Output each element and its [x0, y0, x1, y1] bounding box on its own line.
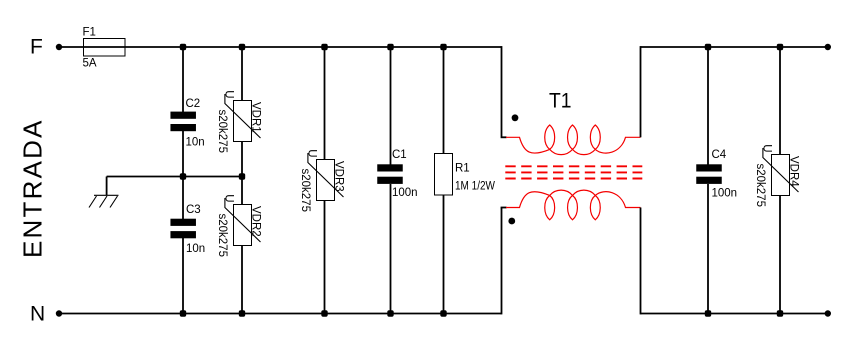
svg-text:U: U — [761, 144, 773, 152]
fuse F1 — [84, 39, 126, 57]
varistor VDR4 diagonal with tail — [763, 148, 799, 192]
wire stub to T1 pin 1 — [501, 136, 507, 138]
wire top to VDR1 — [241, 47, 243, 101]
wire top to C1 — [390, 47, 392, 165]
T1 primary winding (top coil) — [506, 137, 641, 154]
wire R1 to bottom — [443, 195, 445, 314]
svg-text:s20k275: s20k275 — [216, 110, 228, 153]
wire C3 to bottom — [182, 237, 184, 314]
capacitor C1 — [377, 164, 403, 171]
svg-text:s20k275: s20k275 — [299, 169, 311, 212]
wire bottom rail right section — [641, 313, 829, 315]
junction bottom VDR2 branch — [239, 310, 245, 316]
T1 polarity dot top — [512, 114, 519, 121]
svg-text:C1: C1 — [392, 149, 407, 161]
varistor VDR2 diagonal with tail — [225, 198, 261, 242]
svg-text:F1: F1 — [83, 27, 96, 39]
capacitor C4 — [696, 164, 722, 171]
wire T1 pin2 up to top rail — [640, 46, 642, 137]
varistor VDR1 box — [234, 101, 252, 142]
svg-text:s20k275: s20k275 — [216, 214, 228, 257]
junction bottom C3 branch — [180, 310, 186, 316]
T1 polarity dot bottom — [508, 218, 515, 225]
varistor VDR4 box — [772, 155, 790, 196]
wire top rail right section — [641, 46, 829, 48]
junction top VDR1 branch — [239, 44, 245, 50]
svg-text:C2: C2 — [186, 98, 201, 110]
wire bottom rail left section — [61, 313, 502, 315]
varistor VDR3 diagonal with tail — [308, 153, 344, 197]
T1 secondary winding (bottom coil) — [506, 190, 641, 207]
terminal dot output top — [825, 44, 831, 50]
junction top C4 branch — [705, 44, 711, 50]
junction bottom C4 branch — [705, 310, 711, 316]
terminal dot N — [56, 310, 62, 316]
svg-text:100n: 100n — [392, 187, 418, 199]
wire stub to T1 pin 3 — [501, 207, 507, 209]
T1 primary winding loop 3 — [590, 125, 600, 149]
wire up to T1 bottom-left pin — [501, 208, 503, 315]
svg-text:VDR1: VDR1 — [250, 102, 262, 133]
wire VDR3 to bottom — [324, 201, 326, 314]
svg-text:10n: 10n — [186, 137, 205, 149]
junction top C2 branch — [180, 44, 186, 50]
wire top to C4 — [707, 47, 709, 165]
wire C4 to bottom — [707, 184, 709, 314]
svg-text:10n: 10n — [186, 243, 205, 255]
wire top rail left section — [83, 46, 502, 48]
svg-text:VDR4: VDR4 — [788, 156, 800, 187]
wire T1 pin4 down to bottom rail — [640, 208, 642, 315]
junction top VDR4 branch — [777, 44, 783, 50]
svg-text:C4: C4 — [712, 149, 727, 161]
junction mid VDR1-VDR2 — [239, 173, 245, 179]
T1 secondary winding loop 2 — [568, 195, 578, 219]
junction bottom C1 branch — [387, 310, 393, 316]
capacitor C2 — [170, 112, 196, 119]
svg-text:100n: 100n — [712, 187, 738, 199]
wire top to C2 — [182, 47, 184, 113]
svg-text:R1: R1 — [455, 162, 470, 174]
wire down to T1 top-left pin — [501, 46, 503, 136]
svg-text:ENTRADA: ENTRADA — [18, 118, 48, 258]
capacitor C3 — [170, 219, 196, 226]
wire mid to C3 — [182, 177, 184, 220]
wire ground drop — [106, 177, 108, 196]
svg-text:C3: C3 — [186, 204, 201, 216]
T1 core dashed lines — [505, 165, 642, 167]
varistor VDR3 box — [317, 160, 335, 201]
varistor VDR2 box — [234, 205, 252, 246]
T1 secondary winding loop 1 — [545, 195, 555, 219]
wire VDR4 to bottom — [779, 196, 781, 314]
varistor VDR1 diagonal with tail — [225, 94, 261, 138]
T1 secondary winding loop 3 — [590, 195, 600, 219]
wire top to VDR3 — [324, 47, 326, 160]
svg-text:U: U — [223, 194, 235, 202]
T1 primary winding loop 2 — [568, 125, 578, 149]
junction bottom VDR3 branch — [321, 310, 327, 316]
junction top R1 branch — [440, 44, 446, 50]
T1 primary winding loop 1 — [545, 125, 555, 149]
terminal dot F — [56, 44, 62, 50]
svg-text:s20k275: s20k275 — [754, 164, 766, 207]
wire C2 to mid — [182, 131, 184, 177]
svg-text:VDR2: VDR2 — [250, 206, 262, 237]
terminal dot output bottom — [825, 310, 831, 316]
resistor R1 box — [435, 154, 453, 196]
svg-text:VDR3: VDR3 — [333, 161, 345, 192]
wire top to R1 — [443, 47, 445, 154]
junction top VDR3 branch — [321, 44, 327, 50]
svg-text:N: N — [30, 302, 45, 325]
ground symbol — [94, 194, 119, 196]
svg-text:1M 1/2W: 1M 1/2W — [455, 180, 495, 192]
svg-text:T1: T1 — [549, 90, 572, 113]
svg-text:U: U — [306, 149, 318, 157]
junction bottom VDR4 branch — [777, 310, 783, 316]
svg-text:5A: 5A — [83, 58, 97, 70]
wire mid to VDR2 — [241, 177, 243, 205]
svg-text:U: U — [223, 90, 235, 98]
wire VDR2 to bottom — [241, 246, 243, 314]
wire F terminal to fuse — [61, 46, 83, 48]
wire C1 to bottom — [390, 184, 392, 314]
svg-text:F: F — [30, 35, 43, 58]
wire ground rail — [107, 176, 242, 178]
junction bottom R1 branch — [440, 310, 446, 316]
wire VDR1 to mid — [241, 142, 243, 177]
wire top to VDR4 — [779, 47, 781, 155]
junction top C1 branch — [387, 44, 393, 50]
junction mid C2-C3 — [180, 173, 186, 179]
